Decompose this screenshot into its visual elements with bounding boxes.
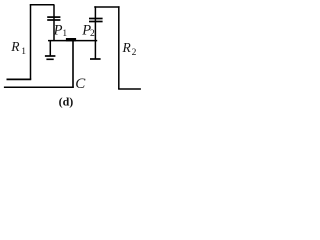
P1 plate bottom [47, 19, 60, 21]
wire: right foot [118, 88, 141, 90]
P2 plate bottom [89, 21, 103, 23]
wire: left vertical [30, 4, 32, 79]
wire: left foot [7, 78, 32, 80]
wire: P1 vertical through plates down to bar [53, 5, 55, 42]
wire: P2 vertical through plates down to right terminal [94, 6, 96, 58]
resistor R2 (right branch outline) [94, 6, 141, 89]
label R2 [122, 40, 137, 58]
wire: long bottom line [4, 86, 74, 88]
resistor R1 (left branch outline) [7, 4, 55, 79]
svg-text:P: P [53, 22, 63, 38]
P1 plate top [47, 16, 60, 18]
wire: center vertical from plate C down [72, 41, 74, 88]
wire: horizontal bar joining P1 and P2 [48, 40, 97, 42]
ground bar 2 [46, 58, 53, 60]
wire: left top rail [30, 4, 54, 6]
ground bar 1 [45, 55, 56, 57]
capacitor P2 [89, 6, 103, 58]
svg-text:(d): (d) [59, 95, 74, 109]
terminal under right end of bar [90, 58, 101, 60]
svg-text:2: 2 [90, 29, 95, 39]
ground terminal under left end of bar [45, 41, 56, 59]
svg-text:R: R [122, 40, 132, 55]
wire: left terminal vertical [49, 41, 51, 56]
terminal bar right [90, 58, 101, 60]
wire: right vertical [118, 6, 120, 89]
label P2 [81, 22, 95, 39]
svg-text:1: 1 [21, 47, 26, 57]
capacitor P1 [47, 5, 60, 42]
svg-text:1: 1 [62, 29, 67, 39]
svg-text:C: C [75, 76, 86, 92]
wire: right top rail [94, 6, 119, 8]
svg-text:2: 2 [132, 48, 137, 58]
capacitor C movable plate on bar [66, 38, 76, 41]
label R1 [10, 39, 26, 57]
label P1 [53, 22, 68, 39]
P2 plate top [89, 18, 103, 20]
svg-text:R: R [10, 39, 20, 54]
